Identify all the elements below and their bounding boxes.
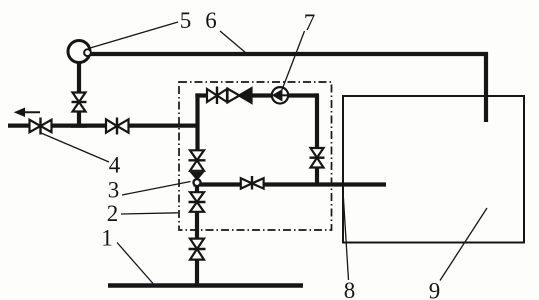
wire: left vertical from valve C to main pipe 1 (195, 260, 199, 285)
valve 4 (30, 118, 52, 135)
ball check seat (filled funnel) (191, 172, 204, 180)
valve B on left vertical (189, 192, 206, 212)
svg-text:2: 2 (107, 201, 119, 226)
wire: drop pipe from pump 5 upper segment (77, 62, 81, 92)
loop right vertical upper (315, 96, 319, 149)
svg-text:9: 9 (429, 279, 441, 300)
pipe 6 (top pipe from pump 5 to tank) (88, 54, 486, 122)
valve on feed pipe at x=117 (106, 118, 129, 135)
leader line to label 4 (41, 133, 109, 162)
valve on loop right vertical (310, 148, 325, 168)
loop top pipe segments (195, 93, 317, 97)
svg-text:7: 7 (304, 10, 316, 35)
check valve (open + filled triangle) (228, 88, 252, 103)
pipe 1 (bottom main) (108, 283, 303, 287)
svg-text:8: 8 (344, 278, 356, 300)
pump 5 outlet small circle (84, 49, 91, 56)
svg-text:3: 3 (108, 178, 120, 203)
leader line to label 2 (121, 213, 178, 214)
valve C (below box) (189, 239, 206, 260)
valve on loop top pipe (207, 87, 227, 105)
leader line to label 3 (122, 182, 191, 196)
wire: drop pipe from pump 5 lower segment (71, 112, 87, 128)
leader line to label 5 (90, 22, 178, 48)
wire: left vertical between bottom pipe and valve B (195, 186, 199, 192)
leader line to label 7 (280, 31, 305, 95)
leader line to label 6 (220, 31, 246, 53)
svg-text:5: 5 (180, 8, 192, 33)
loop left vertical upper (195, 93, 199, 150)
wire: left vertical between valve B and valve C (195, 212, 199, 239)
leader line to label 9 (440, 208, 487, 281)
ball of check valve (194, 179, 201, 186)
loop right vertical lower (315, 168, 319, 186)
discharge arrow (top left) (15, 108, 40, 116)
valve below pump 5 (72, 93, 87, 112)
leader line to label 1 (117, 243, 153, 284)
pump 7 (circle with impeller) (272, 87, 288, 103)
left feed pipe segments (8, 123, 200, 127)
svg-text:1: 1 (101, 226, 113, 251)
leader line to label 8 (343, 191, 349, 280)
svg-text:6: 6 (205, 8, 217, 33)
valve on loop bottom pipe (241, 176, 264, 190)
svg-text:4: 4 (109, 153, 121, 178)
valve A on left vertical (inside box) (189, 150, 206, 171)
dash-dot enclosure box (179, 82, 332, 230)
tank 9 (343, 96, 524, 243)
loop bottom pipe segments (to tank) (194, 182, 387, 186)
pump 5 (circle) (68, 41, 90, 63)
